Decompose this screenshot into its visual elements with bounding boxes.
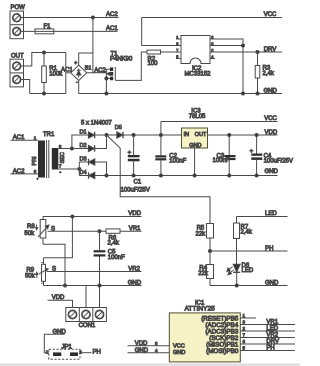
diode D6 LED [227, 263, 254, 286]
svg-text:100nF: 100nF [169, 158, 186, 164]
wire OUT-1 up and across [21, 53, 66, 67]
wire AC1 to primary [11, 139, 39, 141]
connector OUT [10, 54, 24, 87]
wire VDD pots rail [43, 216, 142, 218]
node R3 bottom on rail [256, 92, 259, 95]
node C4 top [255, 134, 258, 137]
wire right GND [210, 285, 288, 287]
diode D1 [80, 129, 95, 138]
node C4 bottom [255, 174, 258, 177]
node sec-9 junction [70, 147, 73, 150]
svg-text:22k: 22k [198, 271, 209, 277]
op-amp driver IC2 MC33152 [176, 35, 215, 77]
wire GND to IC1 pin4 [128, 352, 170, 354]
wire D5 cathode to VDD input rail [123, 134, 182, 136]
svg-text:GND: GND [128, 281, 142, 287]
wire R9 wiper VR2 [47, 271, 142, 273]
wire B1 bottom vertex to rail [78, 81, 80, 94]
svg-text:GND: GND [189, 143, 201, 149]
wire PH net [210, 250, 288, 252]
node D-block GND junction [105, 174, 108, 177]
svg-text:AC2: AC2 [106, 12, 118, 18]
resistor R7 2.4k [234, 217, 253, 266]
svg-text:VCC: VCC [264, 116, 277, 122]
svg-text:MC33152: MC33152 [185, 72, 212, 78]
node R6 C5 junction [98, 230, 101, 233]
svg-text:8: 8 [211, 35, 213, 39]
svg-text:100uF/25V: 100uF/25V [264, 158, 293, 164]
wire R8 bottom to GND [43, 244, 65, 285]
svg-text:2: 2 [211, 48, 213, 52]
node sec-7 junction [78, 168, 81, 171]
microcontroller IC1 ATTINY25 [169, 301, 240, 362]
wire D1 anode column [72, 135, 89, 149]
svg-text:4: 4 [211, 55, 213, 59]
wire left bottom rail [30, 93, 66, 95]
resistor R6 2.4k [100, 229, 142, 246]
transistor T1 P4NK90 [105, 51, 133, 93]
wire B1 right vertex to T1 [87, 72, 107, 74]
resistor R2 100 [147, 50, 161, 67]
resistor R3 2.4k [255, 52, 275, 94]
node C1 bottom [132, 174, 135, 177]
node C1 top [132, 134, 135, 137]
capacitor C4 100uF/25V [250, 135, 293, 176]
svg-text:LED: LED [266, 326, 278, 332]
svg-text:P4NK90: P4NK90 [110, 56, 133, 62]
resistor R1 100k [42, 53, 64, 94]
node R8 gnd junction [64, 284, 67, 287]
svg-text:100nF: 100nF [213, 158, 230, 164]
svg-text:2,4k: 2,4k [241, 230, 253, 236]
wire D3 D4 cathode column [78, 162, 80, 176]
svg-text:50k: 50k [25, 273, 36, 279]
regulator IC3 78L05 [182, 109, 208, 176]
svg-text:3: 3 [211, 42, 213, 46]
diode D3 [80, 156, 95, 165]
node R3 top [256, 51, 259, 54]
wire T1 gate loop to R2 [115, 52, 147, 80]
wire VCC rail top [142, 17, 282, 19]
potentiometer R8 50k [24, 217, 49, 245]
wire bridge left vertex [66, 72, 71, 74]
svg-text:100uF/25V: 100uF/25V [121, 187, 150, 193]
wire VDD rail from IC3 out [207, 134, 277, 136]
wire R8 wiper [48, 230, 100, 232]
wire AC2 rail from POW-1 [21, 17, 119, 19]
svg-text:VR2: VR2 [128, 266, 140, 272]
svg-text:PH: PH [93, 349, 101, 355]
wire pots GND [44, 285, 142, 287]
wire AC1 column [65, 53, 67, 94]
node PH junction [209, 250, 212, 253]
connector CON1 [66, 308, 107, 330]
wire secondary 7 to D3/D4 [58, 168, 79, 170]
svg-text:DRV: DRV [264, 47, 277, 53]
wire secondary 9 to D-block [58, 148, 106, 150]
pin 5 wire PH [240, 350, 295, 352]
bridge rectifier B1 [71, 60, 92, 85]
fuse F1 [35, 24, 54, 34]
node GND column on rail [242, 92, 245, 95]
svg-text:ATTINY25: ATTINY25 [185, 305, 216, 312]
wire GND rail (mid) [79, 93, 282, 95]
svg-text:IN: IN [184, 132, 190, 138]
svg-text:2,4k: 2,4k [263, 71, 275, 77]
pin 3 wire VR1 [240, 324, 295, 326]
svg-text:R8: R8 [27, 224, 35, 230]
wire IC2 pins 1-2 tie to GND column [215, 39, 243, 94]
svg-text:100nF: 100nF [108, 255, 125, 261]
node IC3 gnd on bus [193, 174, 196, 177]
capacitor C1 100uF/25V [121, 135, 150, 193]
pin 6 wire DRV [240, 343, 295, 345]
node C2 top [159, 134, 162, 137]
wire fuse to AC1 label [54, 30, 118, 32]
resistor R5 22k [196, 224, 214, 265]
diode D4 [80, 170, 95, 179]
svg-text:D5: D5 [115, 125, 122, 131]
wire VDD to CON1 [48, 300, 73, 307]
wire D2 cathode up to junction [95, 135, 107, 149]
node tie junction [242, 44, 245, 47]
node C3 bottom [228, 174, 231, 177]
wire B1 top vertex to AC2 column [79, 53, 93, 65]
svg-text:SEC: SEC [60, 152, 66, 163]
svg-text:(MOSI)PB0: (MOSI)PB0 [206, 348, 239, 355]
svg-text:LED: LED [265, 211, 277, 217]
wire VCC drop to IC2 [142, 18, 176, 46]
wire D4 anode joins GND wire [95, 175, 107, 177]
svg-text:PH: PH [265, 246, 273, 252]
svg-text:LED: LED [242, 268, 254, 274]
svg-text:DRV: DRV [266, 339, 279, 345]
wire D1 cathode to node [95, 134, 117, 136]
svg-text:7: 7 [176, 48, 178, 52]
svg-text:22k: 22k [196, 231, 207, 237]
svg-text:VDD: VDD [265, 130, 278, 136]
label net AC1 at bridge [61, 67, 74, 73]
transformer TR1 [32, 132, 66, 180]
svg-text:50k: 50k [24, 231, 35, 237]
wire LED net [237, 216, 288, 218]
svg-text:CON1: CON1 [79, 323, 96, 329]
svg-text:AC1: AC1 [106, 26, 118, 32]
wire GND to JP1 [44, 334, 65, 352]
diode D5 [115, 125, 123, 138]
capacitor C2 100nF [155, 122, 186, 176]
svg-text:+: + [74, 60, 77, 66]
svg-text:C1: C1 [134, 180, 142, 186]
node VDD riser junction [71, 215, 74, 218]
svg-text:GND: GND [173, 350, 185, 356]
svg-text:D1: D1 [80, 129, 87, 135]
node R1 bottom junction [43, 92, 46, 95]
node T1 source on GND rail [105, 92, 108, 95]
resistor R4 22k [198, 265, 213, 286]
wire VDD riser to R9 [44, 217, 73, 258]
jumper JP1 [46, 344, 83, 359]
svg-text:VCC: VCC [264, 12, 277, 18]
svg-text:POW: POW [11, 5, 26, 11]
wire JP1 to PH [80, 352, 92, 354]
connector POW [10, 5, 25, 39]
wire VCC tap [161, 121, 278, 123]
svg-text:TR1: TR1 [43, 132, 55, 138]
node C5 gnd junction [98, 284, 101, 287]
svg-text:PRI: PRI [32, 156, 38, 166]
capacitor C5 100nF [94, 231, 126, 307]
node D6 gnd junction [235, 284, 238, 287]
wire AC2 to primary [11, 173, 39, 175]
svg-text:5: 5 [176, 55, 178, 59]
svg-text:78L05: 78L05 [189, 114, 206, 120]
wire feed diagonal to lower section [107, 135, 211, 224]
svg-text:VR1: VR1 [129, 226, 141, 232]
wire R2 to IC2 pin [161, 51, 177, 53]
svg-text:GND: GND [264, 89, 278, 95]
wire D3 anode to GND wire [95, 162, 107, 176]
capacitor C3 100nF [213, 135, 236, 176]
node junction on AC2 rail [91, 16, 94, 19]
pin 2 wire LED [240, 330, 295, 332]
wire VDD to IC1 pin8 [128, 345, 170, 347]
svg-text:R9: R9 [26, 267, 34, 273]
node C2 bottom [159, 174, 162, 177]
svg-text:2,4k: 2,4k [108, 240, 120, 246]
wire OUT-2 down to left rail [21, 80, 30, 94]
node C3 top [228, 134, 231, 137]
wire CON1-2 to gnd [85, 286, 87, 308]
svg-text:VDD: VDD [128, 211, 141, 217]
node rectifier junction [105, 134, 108, 137]
svg-text:GND: GND [265, 169, 279, 175]
svg-text:B1: B1 [85, 65, 92, 71]
svg-text:5 x 1N4007: 5 x 1N4007 [81, 121, 112, 127]
svg-text:VCC: VCC [173, 344, 185, 350]
potentiometer R9 50k [25, 258, 48, 286]
pin 1 wire [240, 317, 256, 319]
pin 7 wire VR2 [240, 337, 295, 339]
wire DRV net [215, 51, 282, 53]
svg-text:GND: GND [265, 280, 279, 286]
node R1 top junction [43, 51, 46, 54]
wire POW-2 to fuse [21, 30, 35, 32]
svg-text:PH: PH [266, 346, 274, 352]
svg-text:OUT: OUT [11, 54, 24, 60]
bottom scrollbar strip [0, 364, 300, 366]
svg-text:D2: D2 [80, 143, 87, 149]
wire DC GND bus [107, 175, 278, 177]
svg-text:6: 6 [176, 42, 178, 46]
svg-text:AC2: AC2 [94, 68, 106, 74]
svg-text:OUT: OUT [195, 132, 207, 138]
wire AC2 column down [92, 18, 94, 73]
svg-text:VR2: VR2 [266, 333, 278, 339]
svg-text:100: 100 [148, 61, 159, 67]
diode D2 [80, 143, 95, 152]
svg-text:1: 1 [176, 35, 178, 39]
svg-text:VR1: VR1 [266, 320, 278, 326]
